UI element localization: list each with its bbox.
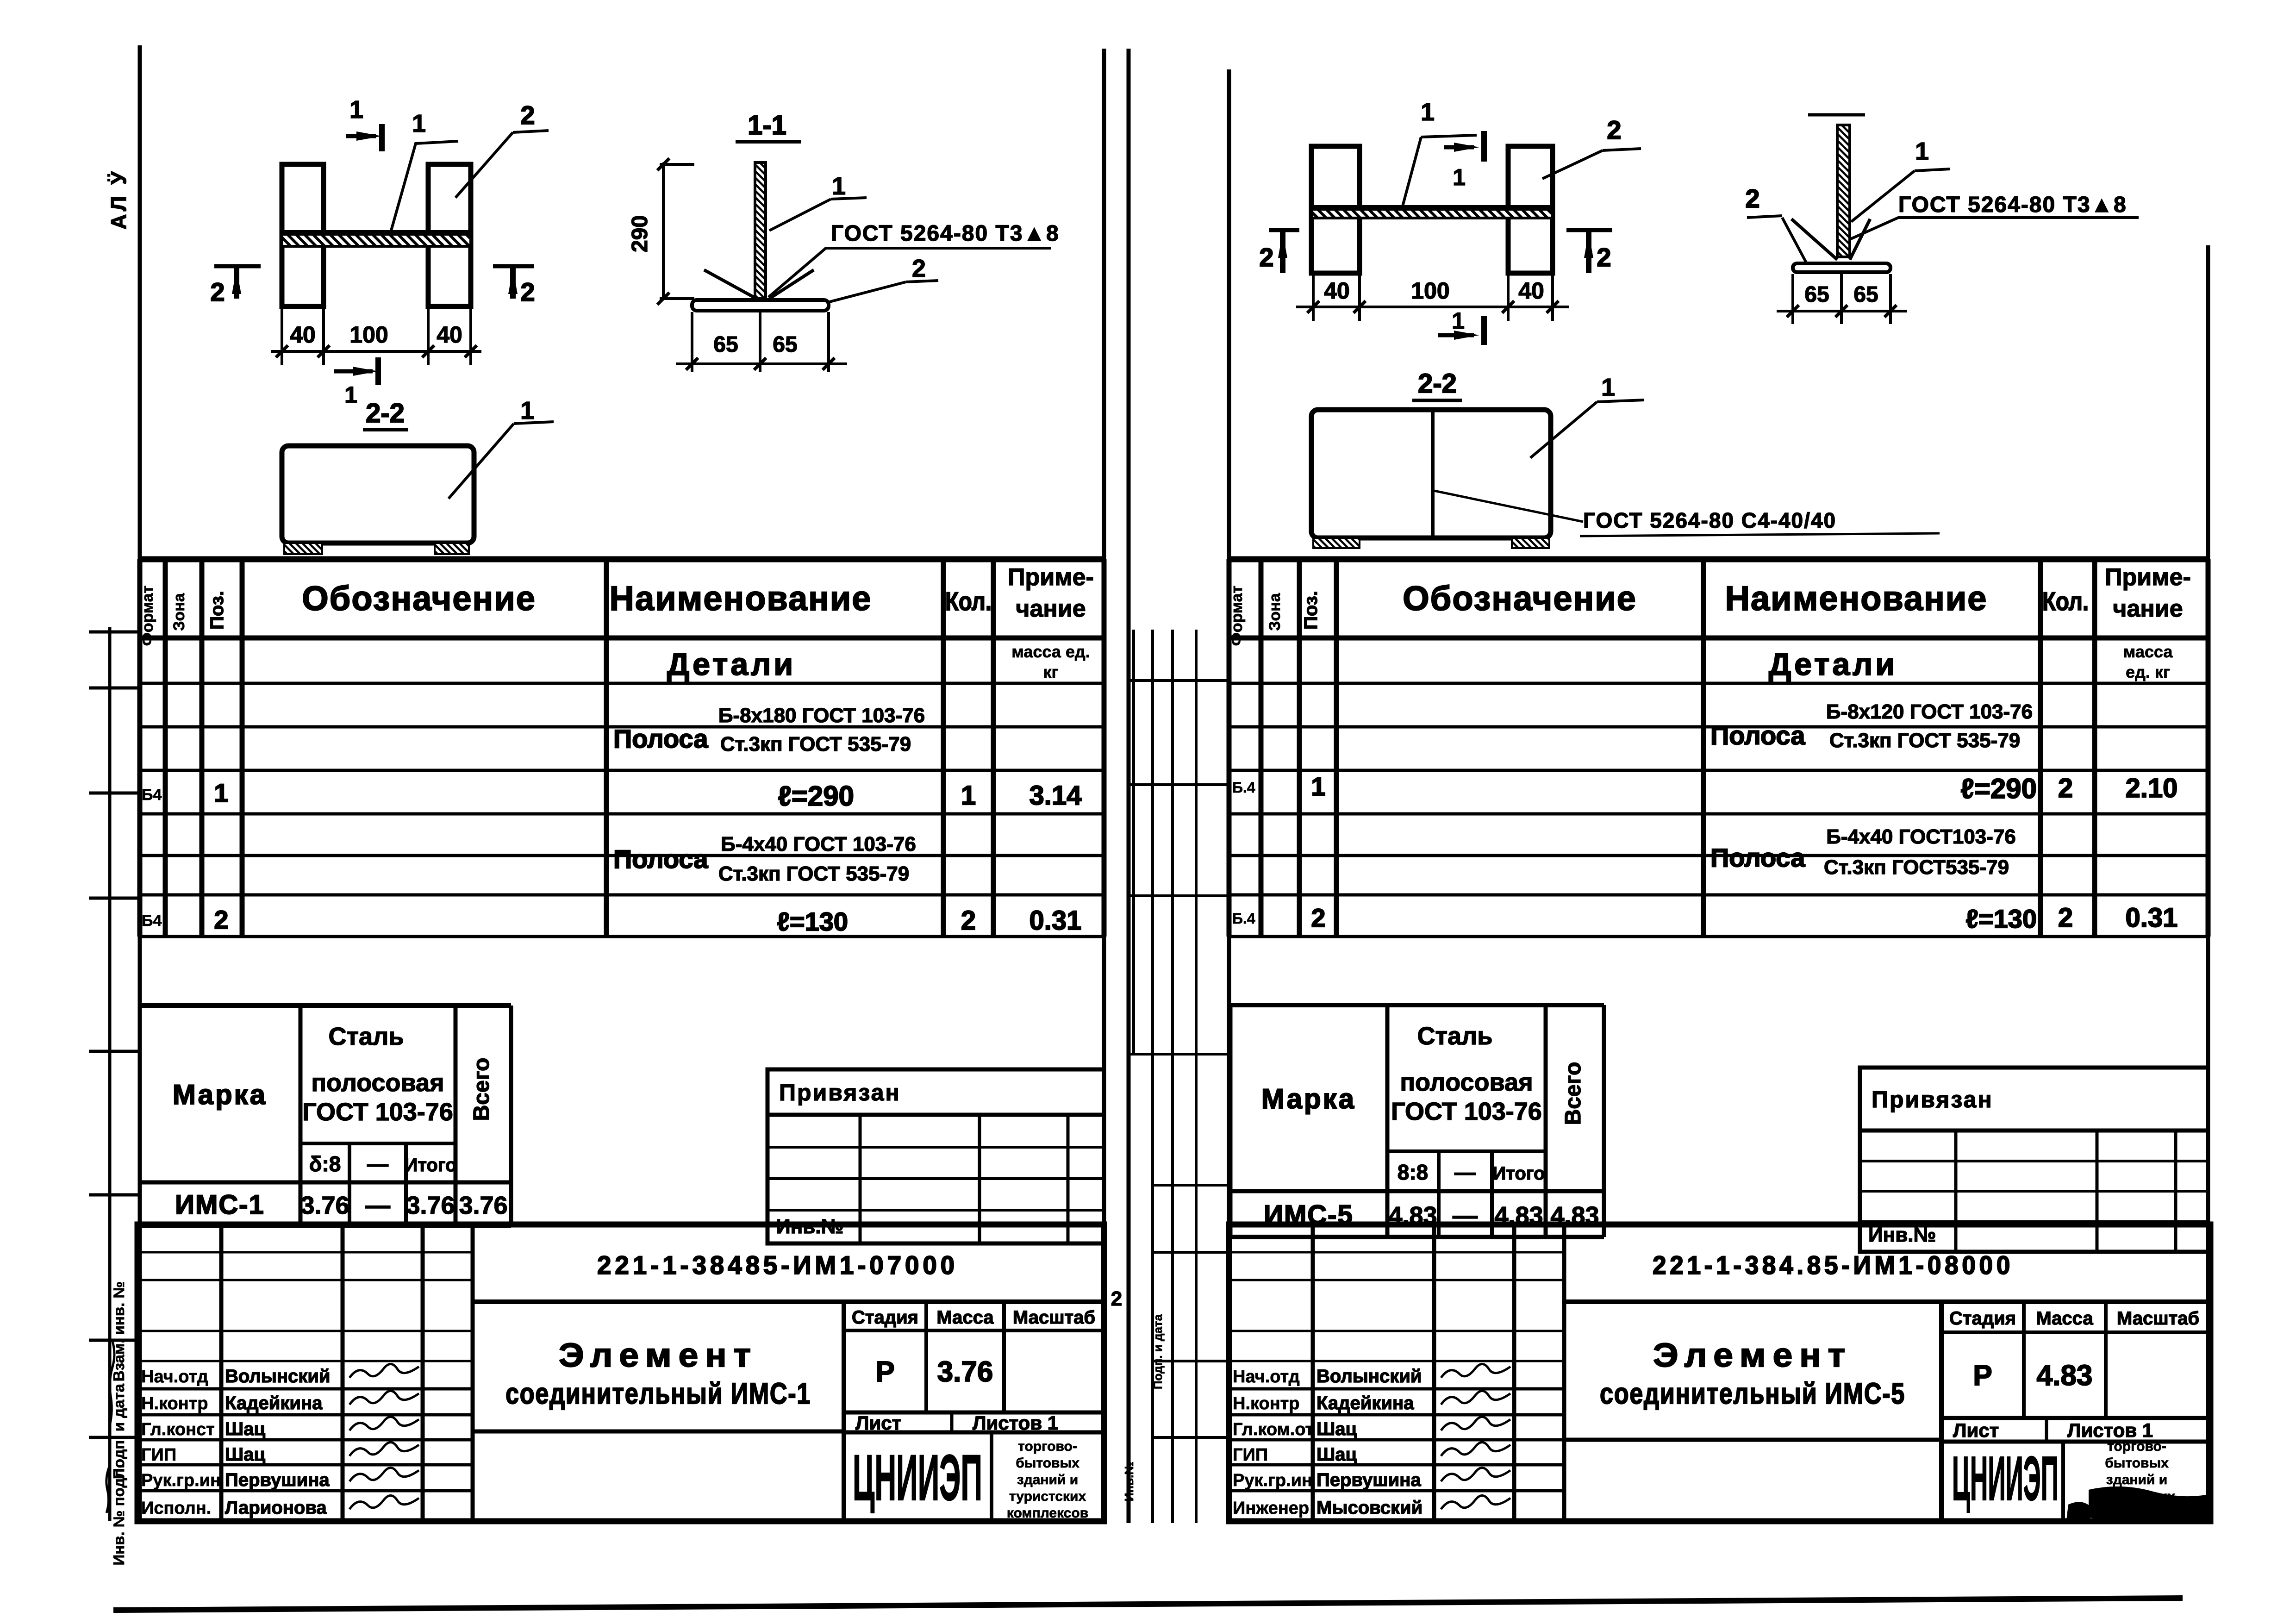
svg-text:Шац: Шац bbox=[1316, 1419, 1357, 1439]
svg-text:комплексов: комплексов bbox=[1007, 1505, 1088, 1521]
right sheet side filing stamp columns bbox=[1132, 630, 1135, 1054]
svg-text:65: 65 bbox=[713, 332, 738, 357]
leader label 1 to bar bbox=[390, 141, 458, 234]
svg-text:100: 100 bbox=[1411, 278, 1449, 304]
svg-text:Наименование: Наименование bbox=[610, 579, 872, 618]
svg-text:Приме-: Приме- bbox=[1008, 564, 1094, 591]
svg-text:Формат: Формат bbox=[139, 586, 156, 646]
section mark 1 (top) bbox=[1444, 145, 1474, 150]
svg-text:масса: масса bbox=[2123, 642, 2173, 661]
weld designation ГОСТ 5264-80 С4-40/40 bbox=[1434, 491, 1583, 522]
left title block bbox=[137, 1224, 1104, 1521]
section mark 2 (right) bbox=[493, 264, 534, 269]
svg-text:2: 2 bbox=[214, 905, 228, 934]
svg-text:Инв.№: Инв.№ bbox=[1122, 1462, 1136, 1502]
svg-text:бытовых: бытовых bbox=[2105, 1455, 2169, 1471]
svg-text:зданий и: зданий и bbox=[1017, 1472, 1078, 1487]
svg-text:0.31: 0.31 bbox=[1029, 906, 1082, 936]
svg-text:2.10: 2.10 bbox=[2126, 773, 2178, 803]
svg-text:Зона: Зона bbox=[1266, 593, 1284, 631]
1-1: dimension 65/65 bbox=[691, 312, 693, 372]
svg-text:Н.контр: Н.контр bbox=[141, 1394, 208, 1413]
svg-text:2: 2 bbox=[961, 906, 976, 936]
svg-text:Обозначение: Обозначение bbox=[302, 579, 536, 618]
left sheet right frame border bbox=[1102, 49, 1106, 1523]
ИМС-1 plan view: strip pos.2 right bbox=[428, 164, 471, 306]
svg-text:кг: кг bbox=[1043, 662, 1058, 681]
svg-text:65: 65 bbox=[1853, 282, 1878, 307]
1-1: dimension 290 bbox=[662, 162, 665, 299]
svg-text:Инв. № подл.: Инв. № подл. bbox=[110, 1464, 127, 1566]
svg-text:масса ед.: масса ед. bbox=[1011, 642, 1090, 661]
svg-text:40: 40 bbox=[1324, 278, 1350, 304]
svg-text:Масштаб: Масштаб bbox=[1013, 1307, 1095, 1328]
svg-text:δ:8: δ:8 bbox=[309, 1152, 341, 1176]
svg-text:Нач.отд: Нач.отд bbox=[141, 1367, 208, 1387]
svg-text:Мысовский: Мысовский bbox=[1316, 1498, 1423, 1518]
svg-text:торгово-: торгово- bbox=[2107, 1439, 2166, 1454]
svg-text:—: — bbox=[365, 1192, 390, 1219]
svg-text:Поз.: Поз. bbox=[1301, 591, 1321, 630]
svg-text:1: 1 bbox=[1311, 772, 1325, 801]
scan edge line between sheets bbox=[1127, 49, 1131, 1523]
svg-text:1: 1 bbox=[1452, 308, 1465, 334]
svg-text:1: 1 bbox=[344, 382, 357, 408]
right section view: top tick bbox=[1808, 113, 1865, 117]
left sheet specification table grid bbox=[137, 559, 143, 937]
svg-text:соединительный ИМС-5: соединительный ИМС-5 bbox=[1600, 1377, 1905, 1410]
svg-text:Элемент: Элемент bbox=[559, 1337, 758, 1374]
svg-text:65: 65 bbox=[1804, 282, 1829, 307]
left Привязан table bbox=[767, 1069, 1104, 1243]
svg-text:Масса: Масса bbox=[936, 1307, 994, 1328]
svg-text:1: 1 bbox=[1421, 98, 1435, 126]
svg-text:Ст.3кп ГОСТ 535-79: Ст.3кп ГОСТ 535-79 bbox=[1829, 729, 2020, 752]
svg-text:3.76: 3.76 bbox=[406, 1192, 455, 1219]
svg-text:221-1-38485-ИМ1-07000: 221-1-38485-ИМ1-07000 bbox=[597, 1250, 958, 1280]
svg-text:3.14: 3.14 bbox=[1029, 781, 1082, 811]
svg-text:Привязан: Привязан bbox=[779, 1080, 901, 1106]
svg-text:2-2: 2-2 bbox=[1418, 369, 1457, 399]
svg-text:туристских: туристских bbox=[1009, 1489, 1086, 1504]
svg-text:Инженер: Инженер bbox=[1233, 1499, 1309, 1518]
right title block bbox=[1229, 1224, 2210, 1521]
left stamp handwriting ink bbox=[110, 1341, 114, 1424]
svg-text:1: 1 bbox=[832, 172, 846, 200]
svg-text:2: 2 bbox=[2058, 903, 2073, 933]
svg-text:ℓ=290: ℓ=290 bbox=[1961, 773, 2037, 804]
svg-text:1: 1 bbox=[349, 96, 363, 124]
1-1: vertical strip pos.1 (hatched) bbox=[755, 162, 766, 299]
ИМС-1 plan view: strip pos.2 left bbox=[282, 164, 324, 306]
svg-text:Б-8х120 ГОСТ 103-76: Б-8х120 ГОСТ 103-76 bbox=[1826, 700, 2033, 723]
section mark 1 (bottom) bbox=[334, 369, 373, 374]
2-2 view rectangle with centre joint bbox=[1311, 410, 1551, 538]
svg-text:Р: Р bbox=[875, 1356, 894, 1388]
right sheet right frame border bbox=[2206, 245, 2210, 1521]
svg-text:2-2: 2-2 bbox=[366, 398, 405, 428]
svg-text:Масса: Масса bbox=[2036, 1308, 2093, 1329]
svg-text:Обозначение: Обозначение bbox=[1403, 579, 1637, 618]
section mark 2 (left) bbox=[214, 264, 261, 269]
svg-text:1: 1 bbox=[1915, 137, 1929, 165]
svg-text:полосовая: полосовая bbox=[1400, 1068, 1533, 1096]
svg-text:Шац: Шац bbox=[1316, 1444, 1357, 1465]
svg-text:Детали: Детали bbox=[667, 647, 796, 682]
svg-text:Гл.конст: Гл.конст bbox=[141, 1420, 215, 1439]
svg-text:Подп. и дата: Подп. и дата bbox=[1151, 1314, 1165, 1389]
svg-text:1-1: 1-1 bbox=[748, 110, 786, 140]
right section view: weld arrows bbox=[1791, 219, 1837, 260]
svg-text:Полоса: Полоса bbox=[613, 844, 708, 874]
svg-text:—: — bbox=[1454, 1160, 1476, 1184]
svg-text:Б-4х40 ГОСТ103-76: Б-4х40 ГОСТ103-76 bbox=[1826, 825, 2016, 848]
svg-text:ℓ=130: ℓ=130 bbox=[777, 907, 848, 936]
svg-text:ГИП: ГИП bbox=[141, 1445, 176, 1465]
svg-text:Н.контр: Н.контр bbox=[1233, 1394, 1300, 1413]
ИМС-5 plan view: strip pos.2 right bbox=[1508, 146, 1553, 273]
svg-text:2: 2 bbox=[1259, 243, 1273, 272]
svg-text:2: 2 bbox=[1745, 184, 1759, 213]
svg-text:2: 2 bbox=[2058, 773, 2073, 803]
svg-text:ГОСТ 103-76: ГОСТ 103-76 bbox=[302, 1098, 453, 1126]
right section: dimension 65/65 bbox=[1791, 274, 1794, 324]
svg-text:40: 40 bbox=[1518, 278, 1544, 304]
svg-text:Листов 1: Листов 1 bbox=[973, 1412, 1058, 1434]
1-1: base plate pos.2 bbox=[692, 300, 829, 311]
svg-text:Б4: Б4 bbox=[142, 786, 162, 804]
svg-text:Привязан: Привязан bbox=[1872, 1087, 1993, 1112]
svg-text:Сталь: Сталь bbox=[1417, 1022, 1493, 1050]
svg-text:Марка: Марка bbox=[1261, 1083, 1356, 1114]
svg-text:Лист: Лист bbox=[1953, 1419, 1999, 1441]
dimension line 40/100/40 bbox=[281, 306, 283, 365]
svg-text:соединительный ИМС-1: соединительный ИМС-1 bbox=[505, 1377, 811, 1410]
left sheet side filing stamp column bbox=[108, 627, 112, 1521]
svg-text:Сталь: Сталь bbox=[329, 1023, 404, 1050]
section mark 2 (left) bbox=[1269, 228, 1299, 232]
svg-text:Стадия: Стадия bbox=[1949, 1308, 2016, 1329]
svg-text:зданий и: зданий и bbox=[2106, 1472, 2167, 1487]
right Привязан table bbox=[1860, 1068, 2208, 1252]
section mark 1 (bottom) bbox=[1438, 333, 1474, 337]
svg-text:40: 40 bbox=[290, 322, 316, 348]
svg-text:8:8: 8:8 bbox=[1398, 1160, 1428, 1184]
right sheet specification table grid bbox=[1227, 559, 1232, 937]
svg-text:100: 100 bbox=[349, 322, 388, 348]
2-2 hatched feet pads bbox=[284, 543, 322, 554]
svg-text:2: 2 bbox=[520, 100, 535, 130]
svg-text:Б-8х180 ГОСТ 103-76: Б-8х180 ГОСТ 103-76 bbox=[718, 704, 925, 727]
svg-text:Полоса: Полоса bbox=[1710, 843, 1805, 872]
svg-text:Первушина: Первушина bbox=[1316, 1470, 1421, 1490]
svg-text:Рук.гр.ин: Рук.гр.ин bbox=[1233, 1471, 1312, 1490]
left Марка table bbox=[140, 1003, 511, 1008]
svg-text:Волынский: Волынский bbox=[225, 1366, 331, 1387]
svg-text:1: 1 bbox=[520, 397, 534, 425]
svg-text:Формат: Формат bbox=[1228, 586, 1246, 646]
svg-text:полосовая: полосовая bbox=[311, 1069, 444, 1097]
svg-text:2: 2 bbox=[1311, 903, 1325, 932]
svg-text:2: 2 bbox=[1607, 115, 1621, 144]
svg-text:торгово-: торгово- bbox=[1018, 1439, 1077, 1454]
svg-text:40: 40 bbox=[437, 322, 462, 348]
svg-text:1: 1 bbox=[412, 110, 426, 137]
svg-text:Кол.: Кол. bbox=[945, 587, 992, 616]
svg-text:бытовых: бытовых bbox=[1016, 1455, 1079, 1471]
ИМС-1 plan view: strip pos.1 (hatched bar) bbox=[282, 233, 471, 246]
svg-text:3.76: 3.76 bbox=[459, 1192, 507, 1219]
svg-text:Итого: Итого bbox=[1493, 1163, 1545, 1184]
svg-text:ℓ=290: ℓ=290 bbox=[778, 781, 854, 812]
svg-text:ЦНИИЭП: ЦНИИЭП bbox=[853, 1441, 982, 1514]
ИМС-5 plan view: strip pos.1 (hatched bar) bbox=[1311, 208, 1553, 218]
svg-text:65: 65 bbox=[773, 332, 797, 357]
svg-text:чание: чание bbox=[1016, 595, 1086, 622]
svg-text:Кадейкина: Кадейкина bbox=[1316, 1393, 1414, 1413]
svg-text:Гл.ком.от: Гл.ком.от bbox=[1233, 1420, 1314, 1439]
svg-text:Шац: Шац bbox=[225, 1444, 265, 1465]
svg-text:АЛ Ӱ: АЛ Ӱ bbox=[106, 169, 131, 229]
svg-text:290: 290 bbox=[628, 215, 652, 252]
section mark 2 (right) bbox=[1566, 228, 1612, 232]
svg-text:чание: чание bbox=[2113, 595, 2183, 622]
svg-text:2: 2 bbox=[912, 255, 926, 282]
svg-text:—: — bbox=[367, 1152, 388, 1176]
svg-text:Б4: Б4 bbox=[142, 912, 162, 930]
svg-text:1: 1 bbox=[214, 778, 228, 807]
right sheet left frame border bbox=[1227, 69, 1231, 1521]
svg-text:Ларионова: Ларионова bbox=[225, 1498, 327, 1518]
bottom scan line bbox=[113, 1598, 2183, 1610]
svg-text:Ст.3кп ГОСТ535-79: Ст.3кп ГОСТ535-79 bbox=[1824, 856, 2009, 879]
1-1: weld arrows bbox=[704, 270, 756, 299]
svg-text:Р: Р bbox=[1973, 1360, 1992, 1392]
svg-text:Кол.: Кол. bbox=[2042, 587, 2089, 616]
svg-text:ед. кг: ед. кг bbox=[2126, 662, 2170, 681]
svg-text:Листов 1: Листов 1 bbox=[2067, 1419, 2153, 1441]
svg-text:ГОСТ 5264-80 Т3▲8: ГОСТ 5264-80 Т3▲8 bbox=[1898, 193, 2127, 217]
svg-text:2: 2 bbox=[210, 277, 225, 306]
svg-text:Всего: Всего bbox=[1561, 1062, 1585, 1125]
svg-text:ГИП: ГИП bbox=[1233, 1445, 1268, 1465]
svg-text:ℓ=130: ℓ=130 bbox=[1965, 904, 2037, 933]
svg-text:Полоса: Полоса bbox=[613, 724, 708, 753]
svg-text:Кадейкина: Кадейкина bbox=[225, 1393, 323, 1413]
svg-text:Ст.3кп ГОСТ 535-79: Ст.3кп ГОСТ 535-79 bbox=[720, 733, 911, 756]
svg-text:0.31: 0.31 bbox=[2126, 903, 2178, 933]
svg-text:Ст.3кп ГОСТ 535-79: Ст.3кп ГОСТ 535-79 bbox=[718, 862, 909, 885]
svg-text:ИМС-1: ИМС-1 bbox=[175, 1190, 264, 1220]
svg-text:ГОСТ 103-76: ГОСТ 103-76 bbox=[1391, 1098, 1542, 1125]
svg-text:Детали: Детали bbox=[1769, 647, 1897, 682]
svg-text:2: 2 bbox=[520, 277, 535, 306]
svg-text:Итого: Итого bbox=[405, 1155, 457, 1175]
svg-text:Б.4: Б.4 bbox=[1232, 779, 1255, 796]
svg-text:Б.4: Б.4 bbox=[1232, 910, 1255, 927]
svg-text:221-1-384.85-ИМ1-08000: 221-1-384.85-ИМ1-08000 bbox=[1653, 1250, 2014, 1280]
right section view: vertical strip pos.1 (hatched) bbox=[1837, 125, 1850, 257]
svg-text:1: 1 bbox=[961, 781, 976, 811]
svg-text:ГОСТ 5264-80 Т3▲8: ГОСТ 5264-80 Т3▲8 bbox=[831, 221, 1060, 246]
svg-text:Нач.отд: Нач.отд bbox=[1233, 1367, 1300, 1387]
right Марка table bbox=[1230, 1003, 1604, 1007]
svg-text:2: 2 bbox=[1597, 243, 1611, 272]
svg-text:Приме-: Приме- bbox=[2105, 564, 2191, 591]
svg-text:Лист: Лист bbox=[855, 1412, 901, 1434]
svg-text:4.83: 4.83 bbox=[2037, 1360, 2093, 1392]
svg-text:Элемент: Элемент bbox=[1653, 1337, 1852, 1374]
svg-text:1: 1 bbox=[1601, 374, 1615, 401]
svg-text:3.76: 3.76 bbox=[300, 1192, 349, 1219]
svg-text:ГОСТ 5264-80 С4-40/40: ГОСТ 5264-80 С4-40/40 bbox=[1583, 508, 1836, 532]
svg-text:Поз.: Поз. bbox=[207, 591, 227, 630]
svg-text:ЦНИИЭП: ЦНИИЭП bbox=[1952, 1443, 2059, 1513]
svg-text:Исполн.: Исполн. bbox=[141, 1499, 211, 1518]
svg-text:Полоса: Полоса bbox=[1710, 721, 1805, 750]
svg-text:Шац: Шац bbox=[225, 1419, 265, 1439]
svg-text:Первушина: Первушина bbox=[225, 1470, 330, 1490]
svg-text:3.76: 3.76 bbox=[937, 1356, 993, 1388]
svg-text:Б-4х40 ГОСТ 103-76: Б-4х40 ГОСТ 103-76 bbox=[721, 833, 916, 856]
right title block ink smudge bbox=[2089, 1487, 2213, 1524]
2-2 view rectangle (strip pos.1 face) bbox=[282, 446, 474, 543]
svg-text:Масштаб: Масштаб bbox=[2117, 1308, 2199, 1329]
svg-text:Всего: Всего bbox=[469, 1058, 494, 1121]
dimension line 40/100/40 bbox=[1312, 273, 1315, 321]
svg-text:1: 1 bbox=[1453, 164, 1466, 190]
svg-text:2: 2 bbox=[1111, 1287, 1122, 1310]
svg-text:Волынский: Волынский bbox=[1316, 1366, 1422, 1387]
svg-text:Рук.гр.ин: Рук.гр.ин bbox=[141, 1471, 221, 1490]
svg-text:Марка: Марка bbox=[173, 1079, 267, 1110]
ИМС-5 plan view: strip pos.2 left bbox=[1311, 146, 1360, 273]
svg-text:Стадия: Стадия bbox=[852, 1307, 918, 1328]
2-2 hatched feet pads bbox=[1313, 538, 1360, 548]
section mark 1 (top) bbox=[346, 134, 376, 138]
right section view: base plate pos.2 bbox=[1793, 263, 1890, 272]
left sheet frame border bbox=[138, 45, 142, 1520]
svg-text:Наименование: Наименование bbox=[1725, 579, 1988, 618]
svg-text:Зона: Зона bbox=[170, 593, 188, 631]
